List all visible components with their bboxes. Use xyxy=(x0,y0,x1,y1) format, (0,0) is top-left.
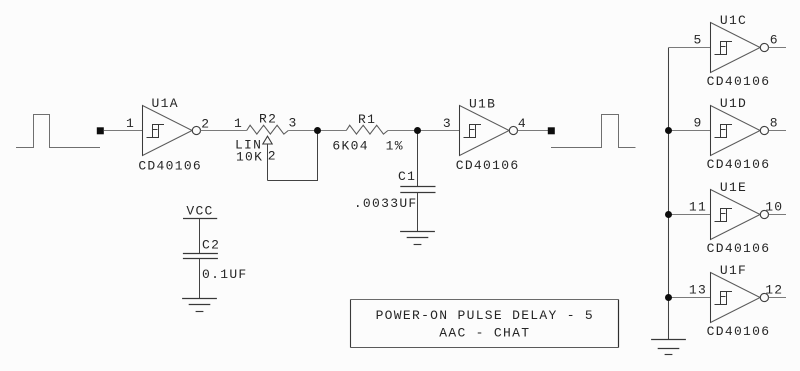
svg-text:1: 1 xyxy=(234,116,243,131)
wire node A to R1 xyxy=(318,130,347,132)
inverter U1F (CD40106 Schmitt trigger) xyxy=(711,273,769,323)
svg-text:CD40106: CD40106 xyxy=(138,159,202,174)
wire node B to U1B pin 3 xyxy=(418,130,460,132)
svg-text:6: 6 xyxy=(770,32,779,47)
svg-text:9: 9 xyxy=(693,115,702,130)
ground at bottom of bus xyxy=(651,340,686,355)
wire U1E output stub xyxy=(769,214,786,216)
svg-text:CD40106: CD40106 xyxy=(707,324,771,339)
svg-text:4: 4 xyxy=(518,116,527,131)
svg-text:CD40106: CD40106 xyxy=(456,158,520,173)
svg-text:13: 13 xyxy=(689,282,707,297)
wiper arrow of R2 (pin 2) xyxy=(263,136,272,180)
svg-text:U1C: U1C xyxy=(720,13,747,28)
capacitor C2 xyxy=(183,254,218,259)
svg-text:U1F: U1F xyxy=(720,263,747,278)
svg-text:1: 1 xyxy=(126,116,135,131)
capacitor C1 xyxy=(400,187,435,193)
wire R2 pin 3 to node A xyxy=(288,130,317,132)
potentiometer R2 body xyxy=(247,125,289,134)
wire bus to U1C input xyxy=(669,47,711,49)
node junction dot on bus at U1F xyxy=(665,294,672,301)
svg-text:2: 2 xyxy=(268,149,277,164)
wire node B down to C1 xyxy=(417,131,419,187)
svg-text:.0033UF: .0033UF xyxy=(354,196,418,211)
wire C1 to ground xyxy=(417,193,419,232)
node B junction dot xyxy=(414,127,421,134)
title box border xyxy=(351,300,619,348)
svg-text:U1A: U1A xyxy=(152,96,179,111)
input pulse waveform xyxy=(16,115,100,148)
svg-text:R1: R1 xyxy=(358,112,376,127)
svg-text:1%: 1% xyxy=(386,139,404,154)
svg-text:12: 12 xyxy=(765,282,783,297)
svg-text:POWER-ON PULSE DELAY - 5: POWER-ON PULSE DELAY - 5 xyxy=(376,308,594,323)
svg-text:CD40106: CD40106 xyxy=(707,74,771,89)
power rail VCC xyxy=(183,204,217,219)
wire U1C output stub xyxy=(769,47,786,49)
inverter U1B (CD40106 Schmitt trigger) xyxy=(460,106,518,156)
svg-text:3: 3 xyxy=(288,116,297,131)
wire R1 to node B xyxy=(388,130,418,132)
svg-text:6K04: 6K04 xyxy=(332,139,368,154)
ground under C1 xyxy=(400,232,435,245)
svg-text:R2: R2 xyxy=(259,112,277,127)
resistor R1 body xyxy=(346,125,388,134)
wire U1B output to output terminal xyxy=(518,130,548,132)
output pulse waveform xyxy=(551,115,636,148)
ground under C2 xyxy=(182,299,217,312)
inverter U1E (CD40106 Schmitt trigger) xyxy=(711,190,769,240)
svg-text:CD40106: CD40106 xyxy=(707,157,771,172)
node: input terminal square xyxy=(97,127,104,134)
svg-text:U1E: U1E xyxy=(720,180,747,195)
wire bus to U1F input xyxy=(669,297,711,299)
svg-text:3: 3 xyxy=(443,116,452,131)
inverter U1A (CD40106 Schmitt trigger) xyxy=(143,106,201,156)
inverter U1D (CD40106 Schmitt trigger) xyxy=(711,106,769,156)
svg-text:C1: C1 xyxy=(398,169,416,184)
svg-text:11: 11 xyxy=(689,199,707,214)
node A junction dot xyxy=(314,127,321,134)
inverter U1C (CD40106 Schmitt trigger) xyxy=(711,23,769,73)
svg-text:10K: 10K xyxy=(236,149,263,164)
svg-text:VCC: VCC xyxy=(186,204,213,219)
wire U1F output stub xyxy=(769,297,786,299)
svg-text:CD40106: CD40106 xyxy=(707,241,771,256)
wire input to U1A pin 1 xyxy=(104,130,143,132)
svg-text:AAC - CHAT: AAC - CHAT xyxy=(439,326,530,341)
wire bus to U1D input xyxy=(669,130,711,132)
node junction dot on bus at U1E xyxy=(665,211,672,218)
svg-text:2: 2 xyxy=(201,116,210,131)
svg-text:5: 5 xyxy=(693,32,702,47)
svg-text:10: 10 xyxy=(765,199,783,214)
svg-text:C2: C2 xyxy=(202,238,220,253)
wire U1D output stub xyxy=(769,130,786,132)
wire: unused-input bus vertical xyxy=(668,48,670,340)
svg-text:U1B: U1B xyxy=(469,96,496,111)
wire wiper loop to node A xyxy=(268,132,318,181)
svg-text:8: 8 xyxy=(770,115,779,130)
wire VCC to C2 xyxy=(199,219,201,254)
wire bus to U1E input xyxy=(669,214,711,216)
wire U1A output to R2 pin 1 xyxy=(201,130,247,132)
node: output terminal square xyxy=(548,127,555,134)
node junction dot on bus at U1D xyxy=(665,127,672,134)
wire C2 to ground xyxy=(199,259,201,299)
svg-text:U1D: U1D xyxy=(720,96,747,111)
svg-text:0.1UF: 0.1UF xyxy=(202,267,248,282)
